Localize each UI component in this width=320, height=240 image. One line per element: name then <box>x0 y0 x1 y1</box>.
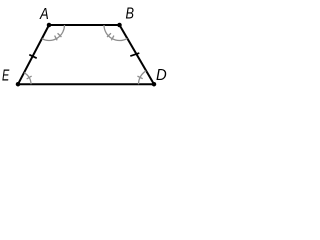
svg-text:E: E <box>2 66 10 83</box>
vertex dot A <box>47 23 52 28</box>
svg-text:A: A <box>39 6 49 23</box>
side AB (top) <box>49 24 120 26</box>
angle tick 1 at A <box>58 33 62 37</box>
vertex dot E <box>16 82 21 87</box>
angle tick 2 at A <box>55 36 58 41</box>
angle tick 2 at B <box>111 36 114 41</box>
angle arc at B <box>104 25 127 40</box>
leg BD <box>120 25 155 84</box>
angle tick at E <box>27 76 32 79</box>
side ED (bottom) <box>18 83 154 85</box>
angle tick at D <box>137 76 142 79</box>
angle arc at E <box>24 73 31 85</box>
angle tick 1 at B <box>107 33 111 37</box>
angle arc at A <box>42 25 65 40</box>
vertex dot B <box>117 23 122 28</box>
svg-text:D: D <box>156 67 167 84</box>
leg EA <box>18 25 49 84</box>
tick on leg BD <box>130 53 139 56</box>
vertex dot D <box>152 82 157 87</box>
angle arc at D <box>139 71 147 84</box>
tick on leg EA <box>29 55 36 59</box>
svg-text:B: B <box>126 5 135 22</box>
